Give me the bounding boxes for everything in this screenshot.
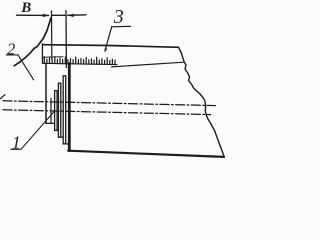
gauge block stack 1: plate c	[58, 83, 60, 137]
extension line left	[51, 11, 53, 59]
centerline lower (dash-dot)	[3, 110, 211, 115]
dimension line left segment with arrow	[17, 14, 49, 16]
extension line right	[65, 11, 67, 68]
ruler left end cap	[41, 44, 43, 63]
gauge block stack 1: left plate outer edge	[45, 64, 47, 124]
label 3 leader arrowhead	[104, 48, 107, 53]
ruler baseline	[42, 63, 117, 64]
centerline upper (dash-dot)	[3, 101, 216, 106]
ruler tick marks	[44, 57, 115, 65]
gauge block stack 1: plate e (tall right)	[68, 64, 71, 151]
svg-text:2: 2	[7, 40, 15, 59]
label 3 leader	[105, 27, 112, 51]
label 1 leader	[21, 111, 55, 150]
body top band bottom line (right)	[112, 62, 184, 67]
svg-text:3: 3	[113, 6, 124, 28]
left edge tick	[0, 95, 5, 99]
gauge block stack 1: bottom steps	[46, 123, 68, 143]
label 1 underline	[11, 148, 21, 150]
label 2 leader	[18, 55, 34, 80]
gauge block stack 1: plate b	[55, 91, 58, 131]
ruler R3 top edge / body top edge	[42, 45, 178, 48]
pointer blade (diagonal)	[14, 18, 51, 66]
gauge block stack 1: plate d	[63, 76, 65, 144]
ruler graduation mid line	[44, 56, 64, 58]
body bottom edge	[68, 151, 224, 157]
body bevel and jagged break edge	[179, 47, 225, 156]
gauge block stack 1: left plate inner edge	[50, 99, 52, 124]
label 3 shelf	[112, 25, 131, 28]
dimension line middle segment	[52, 14, 65, 16]
label 2 underline	[6, 54, 18, 56]
dimension line right segment with arrow	[68, 14, 86, 17]
svg-text:В: В	[20, 0, 31, 16]
